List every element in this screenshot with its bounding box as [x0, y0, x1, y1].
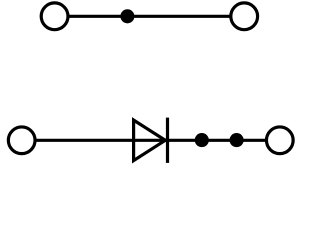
node junction dot bottom 2: [230, 133, 244, 147]
diode D1 triangle: [134, 120, 166, 161]
node junction dot top: [120, 9, 134, 23]
wire top bus: [56, 15, 244, 18]
terminal circle top-left: [41, 3, 68, 30]
terminal circle bottom-right: [266, 127, 293, 154]
node junction dot bottom 1: [195, 133, 209, 147]
wire bottom bus: [22, 139, 280, 142]
diode D1 cathode bar: [166, 118, 169, 163]
terminal circle bottom-left: [8, 127, 35, 154]
terminal circle top-right: [231, 3, 258, 30]
